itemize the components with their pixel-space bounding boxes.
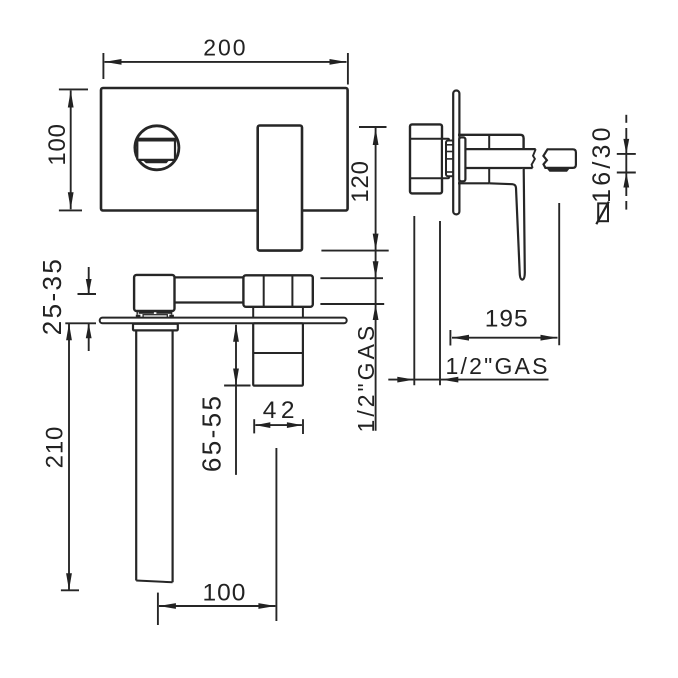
svg-text:210: 210 [42, 426, 69, 468]
dim 25-35: upper segment [88, 267, 90, 294]
aerator row: right square [169, 315, 174, 318]
spout base bar row sides [136, 311, 138, 315]
connector rib 1 [446, 144, 454, 146]
dim 42: left arrow [255, 422, 270, 428]
svg-text:195: 195 [485, 306, 529, 333]
dim 16/30: upper overshoot dash [625, 115, 627, 123]
dim 16/30: lower overshoot dash [625, 201, 627, 210]
dim 200: left arrow [105, 59, 122, 65]
dim 120: extension tick top [359, 126, 387, 128]
dim 200: right arrow [330, 59, 347, 65]
connector rib 3 [446, 171, 454, 173]
svg-text:100: 100 [202, 580, 246, 607]
dim 100 bottom: right arrow [258, 603, 275, 609]
chain tick at spout bottom (plan) [320, 303, 384, 305]
spout outlet circle (aerator escutcheon) [135, 126, 179, 170]
dim 120: bottom arrow [373, 234, 379, 251]
chain arrow down at 278 [373, 261, 379, 278]
dim 100: extension tick top [59, 88, 88, 90]
dim 120/chain: vertical dimension line [375, 128, 377, 431]
spout outlet shadow bar [143, 160, 170, 163]
connector rib 4 [446, 151, 454, 153]
dim 25-35: up arrow [86, 323, 92, 338]
handle base block top edge + right edge [458, 135, 524, 149]
dim 100: dimension line [70, 91, 72, 210]
dim 42: right arrow [287, 422, 302, 428]
dim 195: dimension line [452, 337, 558, 339]
dim 210: bottom tick [61, 589, 79, 591]
inlet depth extension line B [439, 221, 441, 385]
spout base dark bar right [156, 311, 171, 313]
dim 16/30: between-ticks segment [625, 154, 627, 196]
handle body divider 1 [263, 275, 265, 307]
dim 25-35: down arrow [86, 279, 92, 294]
svg-text:1/2"GAS: 1/2"GAS [353, 323, 379, 433]
spout tube end edge [136, 581, 172, 583]
handle body divider 2 [291, 275, 293, 307]
spout tip shadow bar [547, 169, 570, 172]
handle escutcheon edge-on [459, 137, 465, 181]
dim 100: bottom arrow [68, 192, 74, 209]
dim 25-35: tick lower (shared with 210) [65, 322, 96, 324]
spout base block (plan) [134, 275, 174, 311]
square-section symbol with slash [598, 203, 608, 221]
dim 16/30: tick top [617, 153, 636, 155]
ribbed connector [446, 141, 454, 177]
valve body bottom cap line [410, 177, 442, 179]
dim 100 bottom: right extension line [275, 448, 277, 621]
dim 120: extension tick bottom [321, 250, 388, 252]
dim 100 bottom: left arrow [159, 603, 176, 609]
dim 25-35: lower segment [88, 323, 90, 351]
dim 100: top arrow [68, 91, 74, 108]
valve body top cap line [410, 138, 442, 140]
aerator row: middle bar [143, 315, 167, 318]
spout outlet thick top edge [136, 138, 176, 142]
spout tube bottom edge [459, 167, 533, 169]
dim 120: top arrow [373, 128, 379, 145]
svg-text:100: 100 [44, 123, 71, 165]
cartridge housing under spout: bottom edge [458, 182, 489, 184]
svg-text:200: 200 [203, 34, 247, 60]
wall plate edge-on (plan) [100, 318, 347, 324]
spout tube right edge (plan) [172, 330, 174, 582]
concealed valve body (side view) [410, 124, 442, 193]
svg-text:42: 42 [263, 397, 299, 424]
dim 195: left tick [449, 330, 451, 346]
valve body neck [442, 139, 449, 179]
dim 200: extension tick left [102, 53, 104, 79]
dim 65-55: dimension line [235, 325, 237, 475]
svg-text:1/2"GAS: 1/2"GAS [446, 353, 550, 379]
handle escutcheon leg right [302, 307, 304, 318]
dim 100 bottom: dimension line [159, 605, 276, 607]
spout tube top edge [459, 148, 536, 150]
spout tube break line [532, 149, 536, 168]
handle escutcheon rectangle (front view) [258, 126, 302, 251]
chain arrow up at 304 [373, 304, 379, 320]
spout outlet rectangle inside circle [137, 139, 175, 160]
dim 195: left arrow [452, 335, 469, 341]
dim 25-35: tick upper [78, 293, 97, 295]
dim 16/30: up arrow [623, 173, 629, 188]
dim 65-55: top arrow [233, 325, 239, 342]
handle lever rectangle (plan) [253, 323, 303, 385]
spout flange below plate [133, 324, 178, 331]
callout arrow pointing right [397, 377, 414, 383]
dim 210: bottom arrow [66, 573, 72, 590]
dim 16/30: down arrow [623, 139, 629, 154]
spout tube left edge (plan) [135, 330, 137, 580]
spout base dark bar left [139, 311, 154, 313]
dim 16/30: tick bottom [617, 172, 636, 174]
wall plate (front view 200x100) [101, 88, 348, 211]
dim 200: extension tick right [347, 53, 349, 85]
dim 210: top arrow [66, 323, 72, 340]
callout leader line [388, 379, 548, 381]
svg-text:65-55: 65-55 [197, 394, 227, 473]
dim 16/30: upper arrow segment [625, 128, 627, 154]
svg-text:25-35: 25-35 [37, 257, 67, 336]
dim 195: right arrow [541, 335, 558, 341]
wall plate edge-on (side view) [453, 91, 459, 215]
cartridge housing divider [488, 168, 490, 183]
aerator row: left square [136, 315, 141, 318]
handle escutcheon leg left [252, 307, 254, 318]
spout tube horizontal band (plan) [175, 276, 244, 278]
dim 42: left tick [253, 419, 255, 433]
dim 100: extension tick bottom [59, 209, 82, 211]
inlet depth extension line A [413, 216, 415, 385]
dim 65-55: bottom tick [224, 385, 250, 387]
callout arrow pointing left [441, 377, 458, 383]
dim 210: dimension line [68, 323, 70, 590]
broken-off spout tip piece [543, 149, 576, 168]
dim 42: dimension line [255, 424, 302, 426]
handle lever divider (plan) [253, 352, 303, 354]
handle lever blade [489, 168, 525, 279]
svg-text:120: 120 [347, 160, 374, 202]
svg-text:16/30: 16/30 [588, 124, 616, 203]
dim 195: right extension line [558, 203, 560, 345]
connector rib 2 [446, 158, 454, 160]
dim 200: dimension line [105, 61, 347, 63]
dim 65-55: bottom arrow [233, 369, 239, 386]
chain tick at spout top (plan) [320, 277, 383, 279]
handle base divider [488, 135, 490, 149]
dim 100 bottom: left tick [157, 593, 159, 625]
handle body block (plan) [243, 275, 312, 307]
dim 42: right tick [302, 419, 304, 434]
